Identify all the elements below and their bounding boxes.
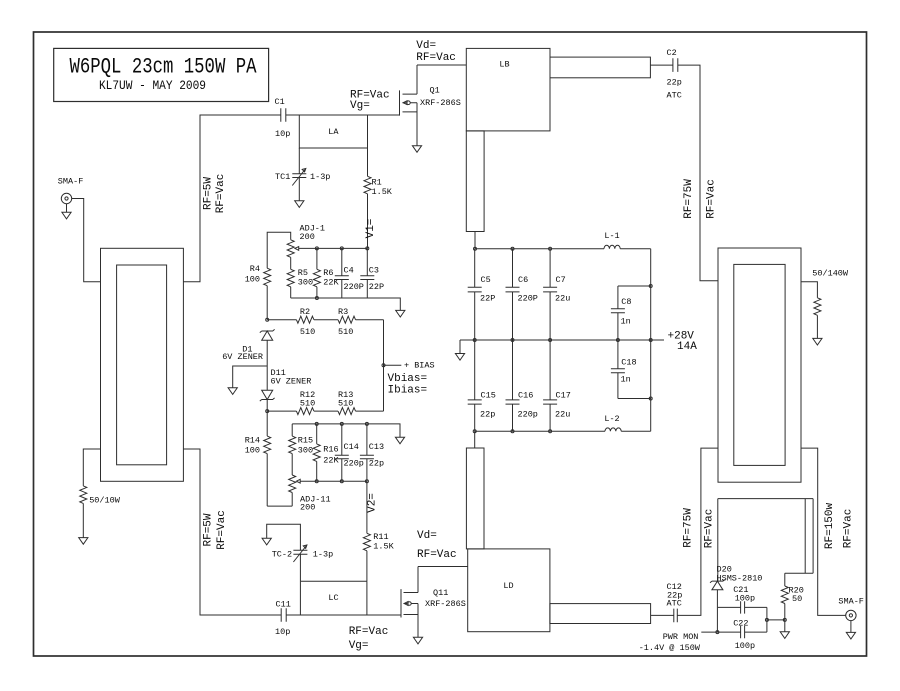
svg-text:1n: 1n (621, 375, 631, 385)
wire LD stub to C12 (651, 614, 674, 616)
svg-text:XRF-286S: XRF-286S (425, 599, 466, 609)
svg-text:200: 200 (300, 232, 315, 242)
wire HY2 bottom-right to output SMA (801, 448, 846, 615)
wire PWR MON rail (701, 631, 767, 633)
wire C1 to Q1 gate (286, 114, 400, 116)
svg-text:510: 510 (338, 399, 353, 409)
svg-text:300: 300 (298, 446, 313, 456)
capacitor C15 22p (468, 340, 496, 431)
resistor R16 22K (313, 424, 339, 481)
junction dot D11-R14-R12 node (266, 410, 269, 413)
resistor R2 510 (267, 307, 315, 337)
svg-text:22p: 22p (667, 78, 682, 88)
svg-text:SMA-F: SMA-F (838, 597, 864, 607)
coupler pickup line power monitor (718, 499, 813, 581)
svg-text:C17: C17 (556, 391, 571, 401)
capacitor C11 10p (275, 600, 291, 638)
svg-text:RF=75W: RF=75W (683, 179, 695, 219)
svg-text:RF=5W: RF=5W (203, 513, 215, 546)
wire upper bias group ground rail (291, 298, 401, 310)
svg-text:LA: LA (328, 127, 339, 137)
svg-text:Vbias=: Vbias= (388, 373, 428, 385)
svg-text:R6: R6 (323, 268, 333, 278)
svg-text:1n: 1n (621, 317, 631, 327)
svg-text:R15: R15 (298, 436, 313, 446)
stripline LC matching box (300, 581, 367, 615)
resistor R12 510 (267, 390, 315, 415)
wire LB to C2 (650, 64, 673, 66)
svg-text:C5: C5 (481, 275, 491, 285)
svg-text:R11: R11 (373, 532, 388, 542)
junction dot D20 anode on PWR MON rail (716, 631, 719, 634)
net label Vd= RF=Vac at Q11 drain (417, 530, 457, 561)
capacitor C8 1n (611, 286, 632, 340)
svg-text:C2: C2 (667, 48, 677, 58)
svg-text:1-3p: 1-3p (310, 172, 330, 182)
resistor R1 1.5K (364, 115, 393, 197)
svg-text:22P: 22P (480, 294, 495, 304)
coupler HY1 input hybrid inner line (117, 265, 167, 465)
svg-text:50/10W: 50/10W (89, 496, 121, 506)
svg-text:1.5K: 1.5K (373, 542, 394, 552)
capacitor C16 220p (506, 340, 538, 431)
wire LB stub to supply rail (474, 232, 476, 249)
net label + BIAS (404, 361, 435, 371)
ground below Q11 source (413, 637, 422, 644)
svg-text:ATC: ATC (667, 599, 682, 609)
wire lower bias group ground rail (292, 424, 400, 437)
svg-text:R2: R2 (300, 307, 310, 317)
capacitor C7 22u (543, 249, 570, 340)
svg-text:TC1: TC1 (275, 172, 290, 182)
wire C1 input line: HY1 top-right up to C1 (183, 115, 280, 282)
wire C12 to coupler HY2 bottom-left (677, 448, 718, 615)
wire tap to R20 (767, 619, 785, 621)
svg-text:50/140W: 50/140W (812, 269, 849, 279)
wire V1 node R1 to bias rail (367, 194, 369, 249)
svg-text:-1.4V @ 150W: -1.4V @ 150W (639, 643, 701, 653)
svg-text:RF=Vac: RF=Vac (416, 52, 456, 64)
wire supply right vertical (650, 249, 652, 432)
net label Vd= RF=Vac at Q1 drain (416, 40, 456, 64)
svg-text:14A: 14A (677, 341, 697, 353)
svg-text:C1: C1 (275, 97, 285, 107)
wire supply top rail (475, 248, 651, 250)
svg-text:1.5K: 1.5K (372, 187, 393, 197)
svg-text:PWR MON: PWR MON (663, 632, 699, 642)
stripline LB block (466, 48, 550, 130)
svg-text:RF=Vac: RF=Vac (843, 509, 855, 549)
svg-text:100p: 100p (735, 594, 755, 604)
svg-text:100: 100 (245, 446, 260, 456)
svg-text:10p: 10p (275, 129, 290, 139)
svg-text:C22: C22 (733, 619, 748, 629)
svg-text:6V ZENER: 6V ZENER (271, 377, 312, 387)
svg-text:510: 510 (338, 327, 353, 337)
net label +28V 14A (668, 331, 698, 354)
title block (54, 48, 269, 101)
wire R4 to bias node (266, 286, 268, 320)
net label RF=150w RF=Vac output (824, 503, 855, 550)
wire bottom rail to LD stub (474, 431, 476, 448)
resistor 50/140W termination (812, 269, 849, 316)
net label RF=5W RF=Vac upper-left (203, 174, 228, 214)
ground above TC-2 (262, 538, 271, 545)
trimmer capacitor TC1 1-3p (275, 148, 330, 201)
resistor R5 300 (287, 257, 313, 298)
svg-text:+ BIAS: + BIAS (404, 361, 435, 371)
svg-text:RF=75W: RF=75W (683, 508, 695, 548)
potentiometer ADJ-1 200 (287, 224, 367, 258)
junction dots supply vertical (649, 285, 652, 401)
connector J1 SMA-F input (58, 177, 84, 204)
transistor Q1 XRF-286S (400, 65, 461, 146)
net label RF=Vac Vg= at Q1 gate (350, 90, 390, 113)
capacitor C4 220P (335, 248, 364, 298)
svg-text:C14: C14 (344, 442, 359, 452)
svg-text:LB: LB (499, 60, 509, 70)
capacitor C22 100p (733, 619, 755, 652)
svg-text:22u: 22u (555, 294, 570, 304)
junction dots ADJ-1 wiper rail (315, 247, 368, 250)
svg-text:R3: R3 (338, 307, 348, 317)
capacitor C3 22P (360, 248, 384, 298)
svg-text:Vd=: Vd= (417, 530, 437, 542)
svg-text:L-1: L-1 (604, 231, 619, 241)
stripline LD output stub (550, 604, 651, 624)
svg-text:RF=150w: RF=150w (824, 503, 836, 550)
svg-text:C8: C8 (621, 297, 631, 307)
junction dot R20 bottom (783, 618, 786, 621)
wire HY1 bottom-left to R terminator (83, 449, 100, 486)
svg-text:C15: C15 (481, 391, 496, 401)
capacitor C6 220P (506, 249, 538, 340)
svg-text:22p: 22p (480, 410, 495, 420)
svg-text:22p: 22p (369, 459, 384, 469)
svg-text:RF=Vac: RF=Vac (417, 549, 457, 561)
svg-text:L-2: L-2 (604, 414, 619, 424)
capacitor C17 22u (543, 340, 571, 431)
svg-text:R1: R1 (372, 178, 382, 188)
wire Q1 drain to LB (417, 64, 466, 66)
diode D20 HSMS-2810 (710, 565, 762, 633)
ground at input SMA (62, 204, 71, 219)
ground below R20 (780, 632, 789, 639)
wire 50/140W to ground (816, 315, 818, 338)
svg-text:C13: C13 (369, 442, 384, 452)
resistor R11 1.5K (363, 532, 394, 581)
ground at output SMA (846, 621, 855, 639)
ground at upper bias group (396, 310, 405, 317)
svg-text:LD: LD (503, 581, 513, 591)
svg-text:Vg=: Vg= (349, 640, 369, 652)
wire C11 to Q11 gate (286, 614, 401, 616)
net label Vbias= Ibias= (388, 373, 428, 397)
capacitor C18 1n (611, 340, 637, 399)
wire ADJ-1 top jog to R4 (267, 232, 291, 268)
stripline LB output stub (550, 57, 650, 78)
stripline LA matching box (299, 115, 367, 148)
svg-text:ATC: ATC (667, 91, 682, 101)
svg-text:Vd=: Vd= (416, 40, 436, 52)
svg-text:V1=: V1= (365, 219, 377, 239)
ground at lower bias group (395, 437, 404, 444)
resistor R6 22K (313, 248, 339, 298)
junction dots mid rail (473, 339, 652, 342)
trimmer capacitor TC-2 1-3p (267, 524, 334, 581)
capacitor C13 22p (360, 424, 384, 481)
svg-text:C7: C7 (556, 275, 566, 285)
ground below Q1 source (412, 146, 421, 153)
wire HY2 top-right to 50/140W (801, 282, 817, 298)
svg-text:R16: R16 (323, 445, 338, 455)
net label RF=75W RF=Vac upper-right (683, 179, 718, 219)
wire mid ground rail (460, 339, 651, 341)
junction dots bottom rail (473, 430, 551, 433)
svg-text:C6: C6 (518, 275, 528, 285)
svg-text:220P: 220P (518, 294, 538, 304)
svg-text:C18: C18 (621, 358, 636, 368)
junction dot R6 bottom (315, 297, 318, 300)
svg-text:RF=Vac: RF=Vac (349, 626, 389, 638)
svg-text:SMA-F: SMA-F (58, 177, 84, 187)
wire HY1 bottom-right down to C11 (183, 449, 281, 615)
svg-text:6V ZENER: 6V ZENER (222, 352, 263, 362)
wire bias right vertical (383, 320, 385, 411)
svg-text:XRF-286S: XRF-286S (420, 98, 461, 108)
svg-text:200: 200 (300, 503, 315, 513)
svg-text:R5: R5 (298, 268, 308, 278)
svg-text:Vg=: Vg= (350, 100, 370, 112)
coupler HY1 input hybrid outer (101, 248, 184, 481)
net label V2= (366, 493, 378, 513)
svg-text:R14: R14 (245, 436, 260, 446)
wire mid rail to ground (459, 340, 461, 354)
wire +BIAS stub (384, 364, 402, 366)
wire zener center tap to ground (233, 366, 268, 388)
wire monitor upper rail (718, 606, 767, 608)
svg-text:V2=: V2= (366, 493, 378, 513)
svg-text:W6PQL 23cm 150W PA: W6PQL 23cm 150W PA (70, 55, 258, 80)
svg-text:22P: 22P (369, 282, 384, 292)
svg-text:220p: 220p (518, 410, 538, 420)
svg-text:Q11: Q11 (433, 588, 448, 598)
resistor R20 50 (781, 573, 804, 620)
ground at zener tap (228, 388, 237, 395)
junction dots top rail (474, 247, 552, 250)
junction dot monitor-ground tap (765, 618, 768, 621)
wire monitor right vertical (766, 607, 768, 632)
svg-text:Ibias=: Ibias= (388, 385, 428, 397)
svg-text:RF=Vac: RF=Vac (215, 174, 227, 214)
svg-text:HSMS-2810: HSMS-2810 (717, 573, 763, 583)
resistor R3 510 (314, 307, 384, 337)
ground below TC1 (295, 201, 304, 208)
net label V1= (365, 219, 377, 239)
ground at mid rail (455, 354, 464, 361)
potentiometer ADJ-11 200 (289, 475, 367, 513)
svg-text:100: 100 (245, 275, 260, 285)
junction dots ADJ-11 wiper rail (315, 480, 368, 483)
capacitor C14 220p (335, 424, 364, 481)
capacitor C21 100p (733, 585, 755, 614)
wire C8 top tap (618, 285, 651, 287)
capacitor C2 22p ATC (667, 48, 682, 101)
wire R14 bottom to ADJ-11 (267, 505, 292, 507)
wire Q11 drain to LD (418, 566, 468, 568)
svg-text:C16: C16 (518, 391, 533, 401)
svg-text:TC-2: TC-2 (272, 550, 292, 560)
ground below 50/140W (813, 338, 822, 345)
svg-text:C3: C3 (369, 266, 379, 276)
zener diode D1 6V (222, 329, 274, 366)
transistor Q11 XRF-286S (401, 567, 466, 638)
wire supply bottom rail (475, 430, 651, 432)
capacitor C12 22p ATC (667, 582, 683, 622)
net label -1.4V @ 150W (639, 643, 701, 653)
svg-text:220P: 220P (344, 282, 364, 292)
svg-text:R4: R4 (250, 264, 260, 274)
ground below 50/10W (79, 538, 88, 545)
junction dot +BIAS tap (382, 364, 385, 367)
wire SMA to hybrid coupler HY1 top-left (72, 199, 101, 282)
inductor L-1 (604, 231, 620, 249)
wire C2 to output coupler HY2 top-left (678, 65, 718, 281)
wire +28V stub (651, 339, 664, 341)
coupler HY2 output hybrid outer (718, 248, 801, 482)
svg-text:RF=Vac: RF=Vac (216, 510, 228, 550)
wire R20 node to ground (784, 620, 786, 632)
stripline LB feed stub down (466, 131, 484, 232)
net label RF=Vac Vg= at Q11 gate (349, 626, 389, 652)
svg-text:22u: 22u (555, 410, 570, 420)
inductor L-2 (604, 414, 621, 431)
wire C18 bottom tap (618, 398, 651, 400)
svg-text:10p: 10p (275, 627, 290, 637)
stripline LD feed stub up (466, 448, 484, 549)
resistor R13 510 (314, 390, 384, 415)
svg-text:RF=Vac: RF=Vac (704, 509, 716, 549)
svg-text:LC: LC (328, 593, 338, 603)
connector J2 SMA-F output (838, 597, 864, 621)
net label RF=5W RF=Vac lower-left (203, 510, 229, 550)
svg-text:300: 300 (298, 278, 313, 288)
junction dot R4-D1-R2 node (266, 318, 269, 321)
resistor R14 100 (245, 411, 271, 506)
svg-text:C11: C11 (276, 600, 291, 610)
junction dots lower ground rail (315, 422, 368, 425)
stripline LD block (468, 549, 550, 632)
svg-text:KL7UW - MAY 2009: KL7UW - MAY 2009 (99, 79, 206, 93)
svg-text:1-3p: 1-3p (313, 550, 333, 560)
wire 50/10W to ground (82, 503, 84, 537)
coupler HY2 output hybrid inner line (734, 264, 785, 465)
svg-text:RF=Vac: RF=Vac (706, 179, 718, 219)
svg-text:100p: 100p (735, 641, 755, 651)
net label RF=75W RF=Vac lower (683, 508, 716, 549)
capacitor C1 10p (275, 97, 291, 139)
resistor R15 300 (289, 424, 313, 475)
svg-text:C4: C4 (344, 266, 354, 276)
svg-text:510: 510 (300, 399, 315, 409)
svg-text:RF=5W: RF=5W (203, 177, 215, 210)
zener diode D11 6V (260, 366, 312, 411)
resistor R4 100 (245, 264, 271, 286)
net label PWR MON (663, 632, 699, 642)
resistor 50/10W termination (80, 486, 121, 506)
wire V2 node to R11 (366, 481, 368, 533)
capacitor C5 22P (468, 249, 496, 340)
svg-text:50: 50 (792, 594, 802, 604)
svg-text:510: 510 (300, 327, 315, 337)
svg-text:22K: 22K (323, 456, 339, 466)
svg-text:220p: 220p (344, 459, 364, 469)
svg-text:Q1: Q1 (430, 86, 440, 96)
